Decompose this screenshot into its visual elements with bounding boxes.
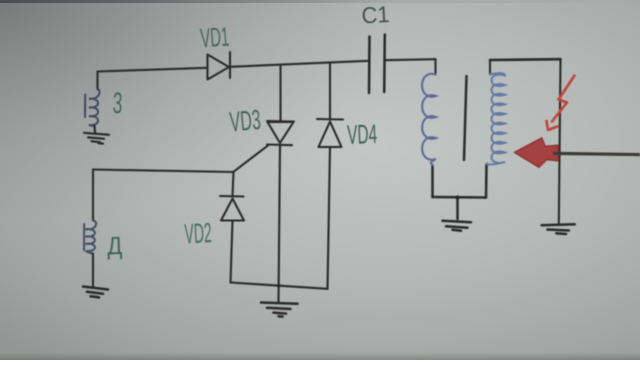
wire VD1 cathode to C1 — [230, 61, 369, 67]
wire VD3 to ground stem — [279, 145, 281, 302]
wire down to primary coil — [434, 59, 436, 74]
transformer core — [464, 76, 467, 160]
wire left branch horizontal — [93, 170, 234, 173]
wire junction down to VD3 — [279, 65, 281, 122]
wire coil D to ground — [92, 254, 94, 287]
lightning bolt — [547, 76, 575, 131]
junction dot transformer bottom — [455, 195, 459, 199]
capacitor C1 — [369, 35, 385, 94]
svg-text:C1: C1 — [361, 2, 390, 29]
ground under coil D — [83, 287, 108, 298]
inductor coil 3 — [85, 89, 100, 126]
wire C1 to primary — [385, 59, 436, 60]
wire stub to coil D — [92, 170, 94, 221]
wire secondary top left — [489, 60, 491, 75]
diode VD4 — [317, 119, 343, 147]
red arrow — [515, 138, 559, 167]
svg-text:VD3: VD3 — [228, 103, 262, 138]
diode VD3 — [267, 121, 294, 145]
wire junction down to VD4 — [329, 63, 331, 120]
diode VD2 — [220, 196, 244, 221]
ground under coil 3 — [84, 126, 109, 144]
wire VD2 to bottom rail — [231, 221, 233, 283]
wire VD4 down to rail — [328, 147, 331, 289]
svg-text:VD2: VD2 — [184, 217, 213, 250]
inductor coil D — [84, 221, 96, 254]
svg-text:VD4: VD4 — [347, 118, 378, 150]
wire secondary top horizontal — [490, 58, 561, 61]
wire diagonal to VD3 — [234, 146, 268, 172]
wire transformer bottom — [433, 196, 487, 199]
ground center (under bottom rail) — [261, 303, 298, 317]
svg-text:Д: Д — [107, 232, 123, 260]
wire primary coil bottom — [431, 165, 434, 197]
wire bottom rail — [231, 283, 328, 289]
wire stub to coil 3 — [96, 72, 98, 90]
transformer primary winding — [422, 74, 436, 165]
wire right vertical to ground — [559, 59, 561, 223]
ground right — [542, 224, 575, 234]
wire top-left horizontal — [98, 68, 208, 72]
ground transformer — [443, 198, 472, 231]
wire secondary coil bottom — [485, 165, 488, 198]
wire stub VD2 top — [233, 172, 234, 196]
svg-text:VD1: VD1 — [199, 21, 230, 54]
junction dot rail crossing — [277, 284, 281, 288]
svg-text:3: 3 — [112, 87, 123, 120]
pointer stick — [553, 153, 640, 154]
transformer secondary winding — [487, 73, 506, 164]
diode VD1 — [208, 52, 231, 80]
